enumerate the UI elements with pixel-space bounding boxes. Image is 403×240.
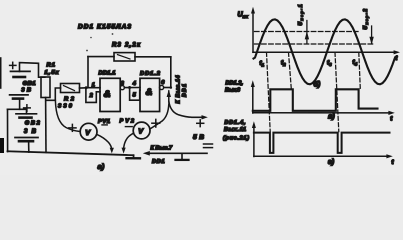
svg-text:5В: 5В xyxy=(193,134,204,141)
svg-text:GB1: GB1 xyxy=(23,81,36,87)
svg-text:К Выв.7: К Выв.7 xyxy=(151,145,173,151)
svg-text:DD1: DD1 xyxy=(182,84,188,97)
svg-text:&: & xyxy=(146,87,153,97)
svg-text:1: 1 xyxy=(92,82,95,88)
svg-text:в): в) xyxy=(328,114,335,121)
svg-text:а): а) xyxy=(98,162,105,171)
svg-text:1,5к: 1,5к xyxy=(45,70,60,76)
svg-text:Вых.11: Вых.11 xyxy=(224,127,246,133)
svg-text:DD1 К155ЛА3: DD1 К155ЛА3 xyxy=(78,24,131,31)
svg-text:(рис.21): (рис.21) xyxy=(223,135,249,141)
svg-text:&: & xyxy=(104,89,111,100)
svg-text:г): г) xyxy=(328,159,335,166)
svg-text:б): б) xyxy=(314,80,321,88)
svg-text:PV2: PV2 xyxy=(120,119,135,125)
svg-text:DD1.4,: DD1.4, xyxy=(225,120,247,126)
svg-text:DD1.2: DD1.2 xyxy=(140,71,161,77)
svg-text:DD1.2,: DD1.2, xyxy=(226,81,244,87)
svg-text:Вых.6: Вых.6 xyxy=(225,88,241,94)
svg-text:DD1: DD1 xyxy=(152,159,165,165)
svg-text:330: 330 xyxy=(58,104,73,110)
svg-text:GB2: GB2 xyxy=(25,120,41,126)
svg-text:3В: 3В xyxy=(21,88,31,94)
svg-text:К Выв.14: К Выв.14 xyxy=(176,75,182,103)
svg-text:R3 2,2к: R3 2,2к xyxy=(112,42,141,48)
svg-text:DD1.1: DD1.1 xyxy=(99,70,116,76)
